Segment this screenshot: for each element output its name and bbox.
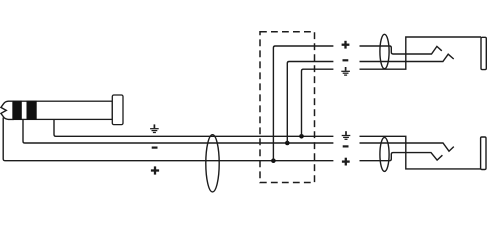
wire tap B rail2 to top (-) [287,62,333,144]
wire tap A rail3 to top (+) [273,46,333,161]
plug P1 ring band 2 [27,101,37,120]
wire bottom (+) to jack J2 tip contact [360,153,443,161]
wire top (+) to jack J1 tip contact [360,46,442,54]
junction dot on rail1 [299,134,304,139]
dashed adapter box [260,32,315,183]
plus label left [151,166,159,174]
plus label top right [342,41,350,49]
jack J2 body (gnd wire + frame) [360,136,481,169]
plug P1 barrel (sleeve shank) [13,101,112,119]
jack J1 body (gnd wire + frame) [360,37,482,69]
junction dot on rail2 [285,141,290,146]
plug P1 collar [112,95,123,125]
wire tap C rail1 to top (gnd) [302,69,334,136]
jack J1 sleeve bar [481,37,486,69]
cable shield ellipse top right [380,34,389,68]
minus label bottom right [343,145,349,147]
minus label top right [343,59,349,61]
cable shield ellipse left [206,135,219,192]
ground symbol top right [341,67,350,75]
plug P1 ring band 1 [13,101,22,120]
jack J2 sleeve bar [481,137,486,170]
ground symbol bottom right [342,131,351,139]
wire top (-) to jack J1 ring contact [360,54,454,61]
cable shield ellipse bottom right [380,137,389,171]
ground symbol left [150,124,159,132]
wire bottom (-) to jack J2 ring contact [360,143,454,151]
wire sleeve-to-rail1 (gnd) left [54,119,333,136]
junction dot on rail3 [271,158,276,163]
wire ring-to-rail2 (-) left [23,119,333,143]
plug P1 tip [1,101,13,119]
minus label left [152,147,158,149]
plus label bottom right [342,158,350,166]
wire tip-to-rail3 (+) left [3,118,333,161]
